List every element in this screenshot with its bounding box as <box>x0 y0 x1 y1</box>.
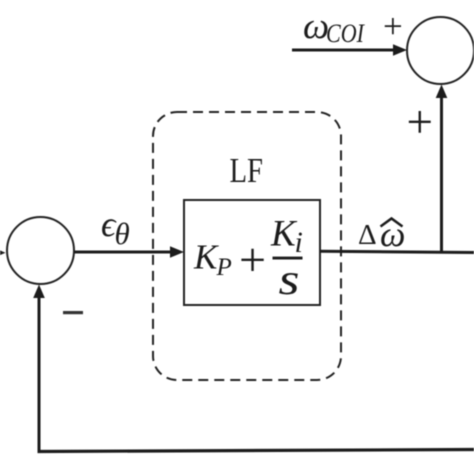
svg-text:P: P <box>216 254 232 281</box>
svg-text:LF: LF <box>230 151 264 190</box>
svg-text:Δ: Δ <box>358 219 377 251</box>
svg-text:+: + <box>407 97 434 149</box>
svg-text:+: + <box>239 234 266 287</box>
svg-text:+: + <box>383 7 403 46</box>
svg-text:θ: θ <box>115 216 130 251</box>
svg-text:K: K <box>193 238 219 277</box>
svg-text:COI: COI <box>326 19 365 48</box>
svg-text:s: s <box>279 255 300 304</box>
